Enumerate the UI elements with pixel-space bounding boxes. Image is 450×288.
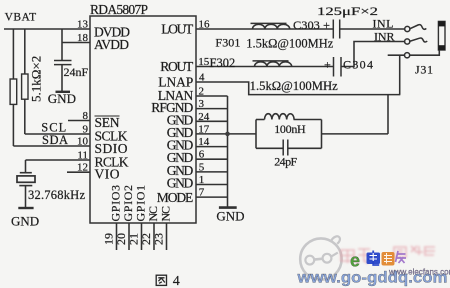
svg-text:24: 24 [198,111,210,123]
svg-text:100nH: 100nH [274,122,306,136]
svg-text:e: e [350,251,360,271]
svg-text:F302: F302 [210,56,236,70]
svg-text:16: 16 [199,19,211,31]
wire C303 to INL contact [340,28,405,30]
svg-text:2: 2 [199,86,205,98]
wire pin 20 [128,223,130,250]
wire pin 1 GND stub [196,184,228,186]
watermark colored glyph (purple) [396,251,407,263]
ground bar under 24nF [56,91,71,93]
crystal X1 32.768kHz [17,173,35,186]
svg-text:24nF: 24nF [64,65,89,79]
capacitor C1 24nF [54,61,72,65]
wire pin 23 [166,223,168,250]
inductor L1 100nH [264,114,294,120]
wire VBAT to resistor R1 [12,29,14,79]
svg-text:32.768kHz: 32.768kHz [28,188,85,202]
wire SDA to pin 10 [13,145,90,147]
svg-text:8: 8 [83,110,89,122]
wire pin 24 GND stub [196,120,228,122]
watermark faint pink characters [341,246,435,264]
svg-text:1.5kΩ@100MHz: 1.5kΩ@100MHz [246,37,333,51]
resistor R2 5.1k [22,74,28,99]
headphone jack J31 body [438,21,445,50]
svg-text:4: 4 [199,72,205,84]
watermark colored glyph dian (blue) [367,251,381,266]
svg-text:5.1kΩ×2: 5.1kΩ×2 [29,56,44,102]
wire sleeve stub [388,54,405,56]
svg-text:C303 +: C303 + [293,18,330,32]
capacitor C2 24pF [283,140,288,156]
svg-text:GND: GND [216,209,244,224]
svg-text:4: 4 [173,274,180,288]
svg-text:13: 13 [77,19,89,31]
switch lever INR [410,38,427,42]
ferrite bead F302 [253,61,292,67]
wire R1 to SDA [12,104,14,146]
svg-text:5: 5 [199,161,205,173]
svg-text:AVDD: AVDD [94,37,129,52]
svg-text:+: + [324,58,331,72]
svg-text:3: 3 [199,98,205,110]
wire pin 14 GND stub [196,146,228,148]
wire antenna down to tank [387,95,389,134]
capacitor C303 [333,20,339,39]
svg-text:C304: C304 [343,58,373,72]
svg-text:MODE: MODE [157,190,194,205]
wire crystal to ground [25,186,27,207]
svg-text:J31: J31 [415,63,433,77]
svg-text:7: 7 [199,187,205,199]
switch contact circle INR [405,39,410,44]
wire RCLK down to crystal [25,160,27,173]
svg-text:LOUT: LOUT [161,22,194,37]
wire VBAT to resistor R2 [24,29,26,74]
svg-text:GND: GND [167,176,194,191]
wire sleeve to jack body [410,50,440,55]
wire pin 12 stub [67,171,90,173]
resistor R1 5.1k [10,79,17,104]
wire tank to antenna line [322,133,389,135]
svg-text:6: 6 [199,149,205,161]
wire antenna drop from sleeve [399,55,401,94]
wire pin 22 [153,223,155,250]
svg-text:10: 10 [77,136,89,148]
ferrite bead F301 [251,23,290,29]
svg-text:GND: GND [11,214,39,229]
svg-text:12: 12 [77,162,88,174]
ground bar under bus [219,206,237,209]
wire pin 18 stub [62,42,90,44]
wire pin 7 MODE stub [196,196,228,198]
switch lever INL [410,25,426,30]
wire pin 21 [141,223,143,250]
svg-text:VIO: VIO [95,167,120,182]
svg-text:24pF: 24pF [274,155,297,169]
svg-text:125μF×2: 125μF×2 [317,4,378,18]
svg-text:INR: INR [374,29,395,43]
svg-text:14: 14 [198,136,210,148]
wire pin 19 [116,223,118,250]
svg-text:18: 18 [77,32,89,44]
svg-text:9: 9 [83,124,89,136]
wire pin 17 GND stub [196,133,228,135]
svg-text:GND: GND [48,91,76,106]
svg-text:ROUT: ROUT [160,59,194,74]
IC U1 RDA5807P body [90,16,196,223]
svg-text:F301: F301 [215,35,240,49]
svg-text:11: 11 [77,150,88,162]
wire tank to GND bus [228,133,257,135]
wire SCL to pin 9 [25,133,90,135]
switch contact circle INL [405,26,410,31]
GND bus vertical [227,96,229,207]
watermark colored glyph (orange) [382,252,395,266]
ground bar under crystal [18,207,33,209]
wire pin 8 stub [68,120,90,122]
svg-text:NC: NC [159,206,173,222]
svg-text:15: 15 [198,56,210,68]
wire cap to ground [61,65,63,91]
svg-text:RDA5807P: RDA5807P [90,2,148,17]
figure caption: character tu (figure) drawn [156,275,166,285]
svg-text:VBAT: VBAT [5,12,36,24]
wire pin 6 GND stub [196,158,228,160]
wire pin 3 RFGND stub [196,108,228,110]
svg-text:INL: INL [373,16,394,30]
capacitor C304 [334,57,342,77]
wire VBAT rail to pin 13 [4,28,90,30]
wire pin 4 LNAP [196,82,400,95]
wire pin 2 LNAN stub [196,95,228,97]
wire pin 16 LOUT to C303 [196,28,333,30]
LC tank loop [256,120,322,149]
wire C304 up to INR [341,42,405,67]
wire VBAT drop to AVDD/cap [61,29,63,61]
svg-text:1.5kΩ@100MHz: 1.5kΩ@100MHz [250,79,338,93]
svg-text:SDA: SDA [42,133,69,147]
svg-text:1: 1 [199,174,205,186]
wire pin 5 GND stub [196,171,228,173]
svg-text:17: 17 [198,123,210,135]
wire pin 15 ROUT to C304 [196,66,334,68]
watermark logo circle [300,236,341,279]
svg-text:www.go-gddq.com: www.go-gddq.com [296,269,447,286]
svg-text:23: 23 [152,233,166,245]
switch contact circle sleeve [405,53,410,58]
wire pin 11 RCLK [26,159,91,161]
wire R2 to SCL [24,99,26,134]
junction node bus to tank [225,132,230,137]
